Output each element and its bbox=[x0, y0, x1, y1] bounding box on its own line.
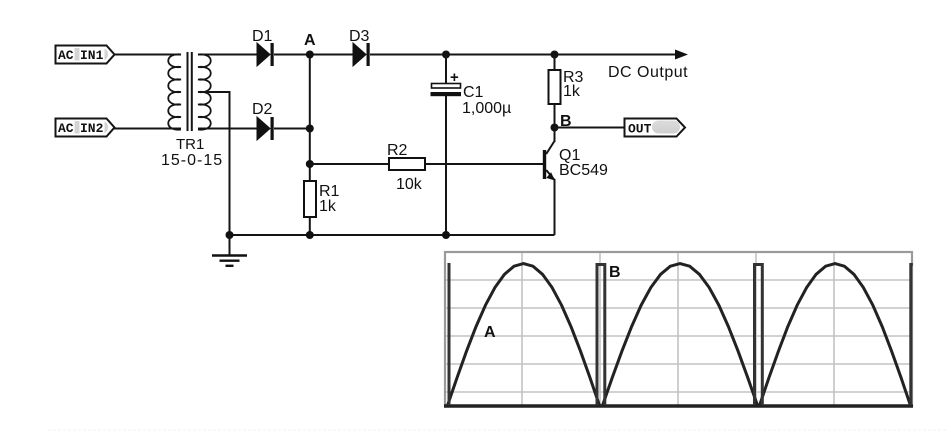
junction R1 top / R2 left bbox=[306, 160, 314, 168]
node B bbox=[551, 113, 572, 132]
junction ground node bbox=[226, 231, 234, 239]
svg-text:AC: AC bbox=[58, 48, 74, 63]
wire R3 top bbox=[554, 55, 556, 71]
wire R2 left bbox=[310, 163, 389, 165]
svg-text:TR1: TR1 bbox=[176, 136, 204, 153]
trace B pulse 2 bbox=[755, 265, 763, 406]
connector AC IN1 bbox=[56, 46, 115, 64]
svg-text:1k: 1k bbox=[563, 83, 581, 100]
wire D3 to DC output arrow bbox=[370, 54, 681, 56]
trace baseline bbox=[444, 404, 913, 408]
svg-text:D3: D3 bbox=[349, 28, 370, 45]
diode D3 bbox=[353, 43, 370, 66]
svg-text:A: A bbox=[484, 324, 496, 341]
trace B pulse left edge bbox=[448, 263, 451, 405]
svg-text:A: A bbox=[304, 32, 316, 49]
svg-text:1,000µ: 1,000µ bbox=[462, 100, 511, 117]
wire node B to OUT connector bbox=[555, 127, 625, 129]
oscilloscope graph bbox=[444, 252, 913, 406]
resistor R3 bbox=[549, 70, 561, 104]
svg-text:IN1: IN1 bbox=[80, 48, 104, 63]
resistor R2 bbox=[389, 158, 425, 170]
svg-text:B: B bbox=[609, 264, 621, 281]
transistor Q1 bbox=[543, 128, 555, 236]
capacitor C1 bbox=[431, 69, 462, 96]
trace B pulse 1 bbox=[597, 265, 605, 406]
wire bottom rail bbox=[230, 234, 555, 236]
grid horizontal lines bbox=[446, 280, 911, 392]
svg-text:10k: 10k bbox=[396, 176, 423, 193]
wire AC IN1 to transformer bbox=[114, 54, 181, 56]
resistor R1 bbox=[304, 181, 316, 217]
trace A hump 2 bbox=[603, 264, 758, 406]
ground bbox=[212, 235, 247, 266]
svg-text:DC Output: DC Output bbox=[608, 64, 688, 81]
svg-text:IN2: IN2 bbox=[80, 121, 104, 136]
wire C1 bottom to rail (crosses R2 wire, no junction) bbox=[445, 96, 447, 235]
faint page margin line bbox=[48, 429, 947, 431]
arrowhead DC Output bbox=[675, 50, 688, 60]
wire R3 bottom to node B bbox=[554, 104, 556, 128]
junction R3 top bbox=[551, 51, 559, 59]
svg-text:AC: AC bbox=[58, 121, 74, 136]
trace A hump 3 bbox=[760, 264, 911, 406]
wire D2 to A column bbox=[274, 128, 310, 130]
transformer TR1 bbox=[168, 52, 211, 131]
connector OUT bbox=[625, 119, 686, 137]
junction C1 bottom bbox=[442, 231, 450, 239]
svg-text:D1: D1 bbox=[252, 28, 273, 45]
svg-text:OUT: OUT bbox=[628, 122, 652, 137]
connector AC IN2 bbox=[56, 119, 115, 137]
wire transformer secondary bottom to D2 bbox=[198, 128, 257, 130]
diode D2 bbox=[257, 117, 274, 140]
wire transformer center tap bbox=[202, 92, 230, 235]
wire AC IN2 to transformer bbox=[114, 128, 181, 130]
svg-text:D2: D2 bbox=[252, 101, 273, 118]
wire node A down to bottom rail bbox=[309, 55, 311, 236]
wire R2 right to Q1 base bbox=[425, 163, 543, 165]
junction D2-cathode column bbox=[306, 125, 314, 133]
wire transformer secondary top to D1 bbox=[198, 54, 257, 56]
trace B pulse right edge bbox=[911, 265, 913, 406]
svg-text:C1: C1 bbox=[463, 84, 484, 101]
svg-text:R2: R2 bbox=[387, 142, 408, 159]
wire C1 top branch bbox=[445, 55, 447, 85]
junction R1 bottom bbox=[306, 231, 314, 239]
node A bbox=[304, 32, 316, 59]
wire D1 to node A bbox=[274, 54, 353, 56]
svg-text:BC549: BC549 bbox=[559, 162, 608, 179]
svg-text:15-0-15: 15-0-15 bbox=[161, 152, 223, 169]
grid vertical lines bbox=[522, 253, 834, 405]
diode D1 bbox=[257, 43, 274, 66]
junction C1 top bbox=[442, 51, 450, 59]
svg-text:1k: 1k bbox=[319, 198, 337, 215]
trace A hump 1 bbox=[448, 264, 600, 406]
